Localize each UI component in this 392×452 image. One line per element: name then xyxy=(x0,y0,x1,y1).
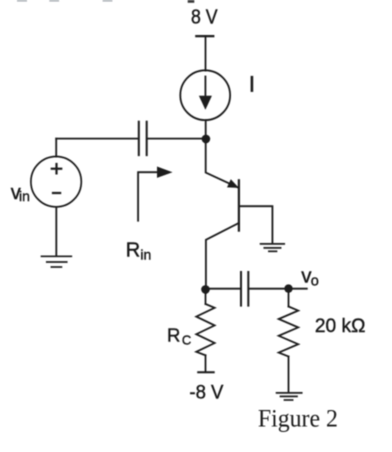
svg-text:R: R xyxy=(126,239,140,261)
label vin xyxy=(11,182,30,204)
wire capacitor to vo node xyxy=(249,288,307,290)
label vo xyxy=(301,264,318,289)
node: current source / capacitor / emitter junction xyxy=(202,135,211,144)
ground (base) xyxy=(261,244,285,251)
ground (vin) xyxy=(42,256,72,267)
plus sign xyxy=(52,164,61,173)
svg-text:20 kΩ: 20 kΩ xyxy=(315,316,366,337)
node: collector / RC / capacitor junction xyxy=(201,285,210,294)
wire capacitor to node xyxy=(148,138,206,140)
wire down to vin source xyxy=(55,139,57,157)
cropped text artifacts top edge xyxy=(17,0,112,2)
resistor RL 20k xyxy=(279,293,299,393)
svg-text:8 V: 8 V xyxy=(191,7,218,29)
cropped text artifact darker xyxy=(188,0,195,3)
current source arrow xyxy=(199,77,212,110)
svg-text:o: o xyxy=(311,274,319,290)
coupling capacitor C1 xyxy=(139,122,147,155)
svg-text:R: R xyxy=(167,324,180,345)
minus sign xyxy=(53,192,60,194)
resistor RC xyxy=(196,294,214,372)
label RC xyxy=(167,324,191,347)
-8V terminal bar xyxy=(198,371,214,373)
wire vin to capacitor xyxy=(56,138,138,140)
label Rin xyxy=(126,239,152,262)
current source I (circle) xyxy=(180,70,230,120)
voltage source vin (circle) xyxy=(31,157,81,207)
emitter wire from node xyxy=(206,143,239,188)
ground (RL) xyxy=(277,393,302,400)
transistor Q1 base bar xyxy=(238,180,240,230)
Rin arrow xyxy=(138,167,172,221)
base wire to ground xyxy=(239,206,273,243)
wire current source to node xyxy=(205,120,207,143)
label I xyxy=(251,77,254,90)
svg-text:C: C xyxy=(182,332,191,347)
wire node to output capacitor xyxy=(206,288,241,290)
svg-text:Figure 2: Figure 2 xyxy=(258,404,338,433)
wire vin to ground xyxy=(55,207,57,256)
+8V supply rail bar xyxy=(196,35,213,37)
collector wire down to output node xyxy=(206,223,239,293)
node vo xyxy=(284,284,292,292)
emitter arrow (PNP, into base bar) xyxy=(227,179,239,188)
svg-text:in: in xyxy=(19,188,30,204)
svg-text:-8 V: -8 V xyxy=(189,381,223,403)
svg-text:in: in xyxy=(140,247,151,263)
output capacitor C2 xyxy=(241,272,248,306)
wire rail to current source xyxy=(205,36,207,71)
